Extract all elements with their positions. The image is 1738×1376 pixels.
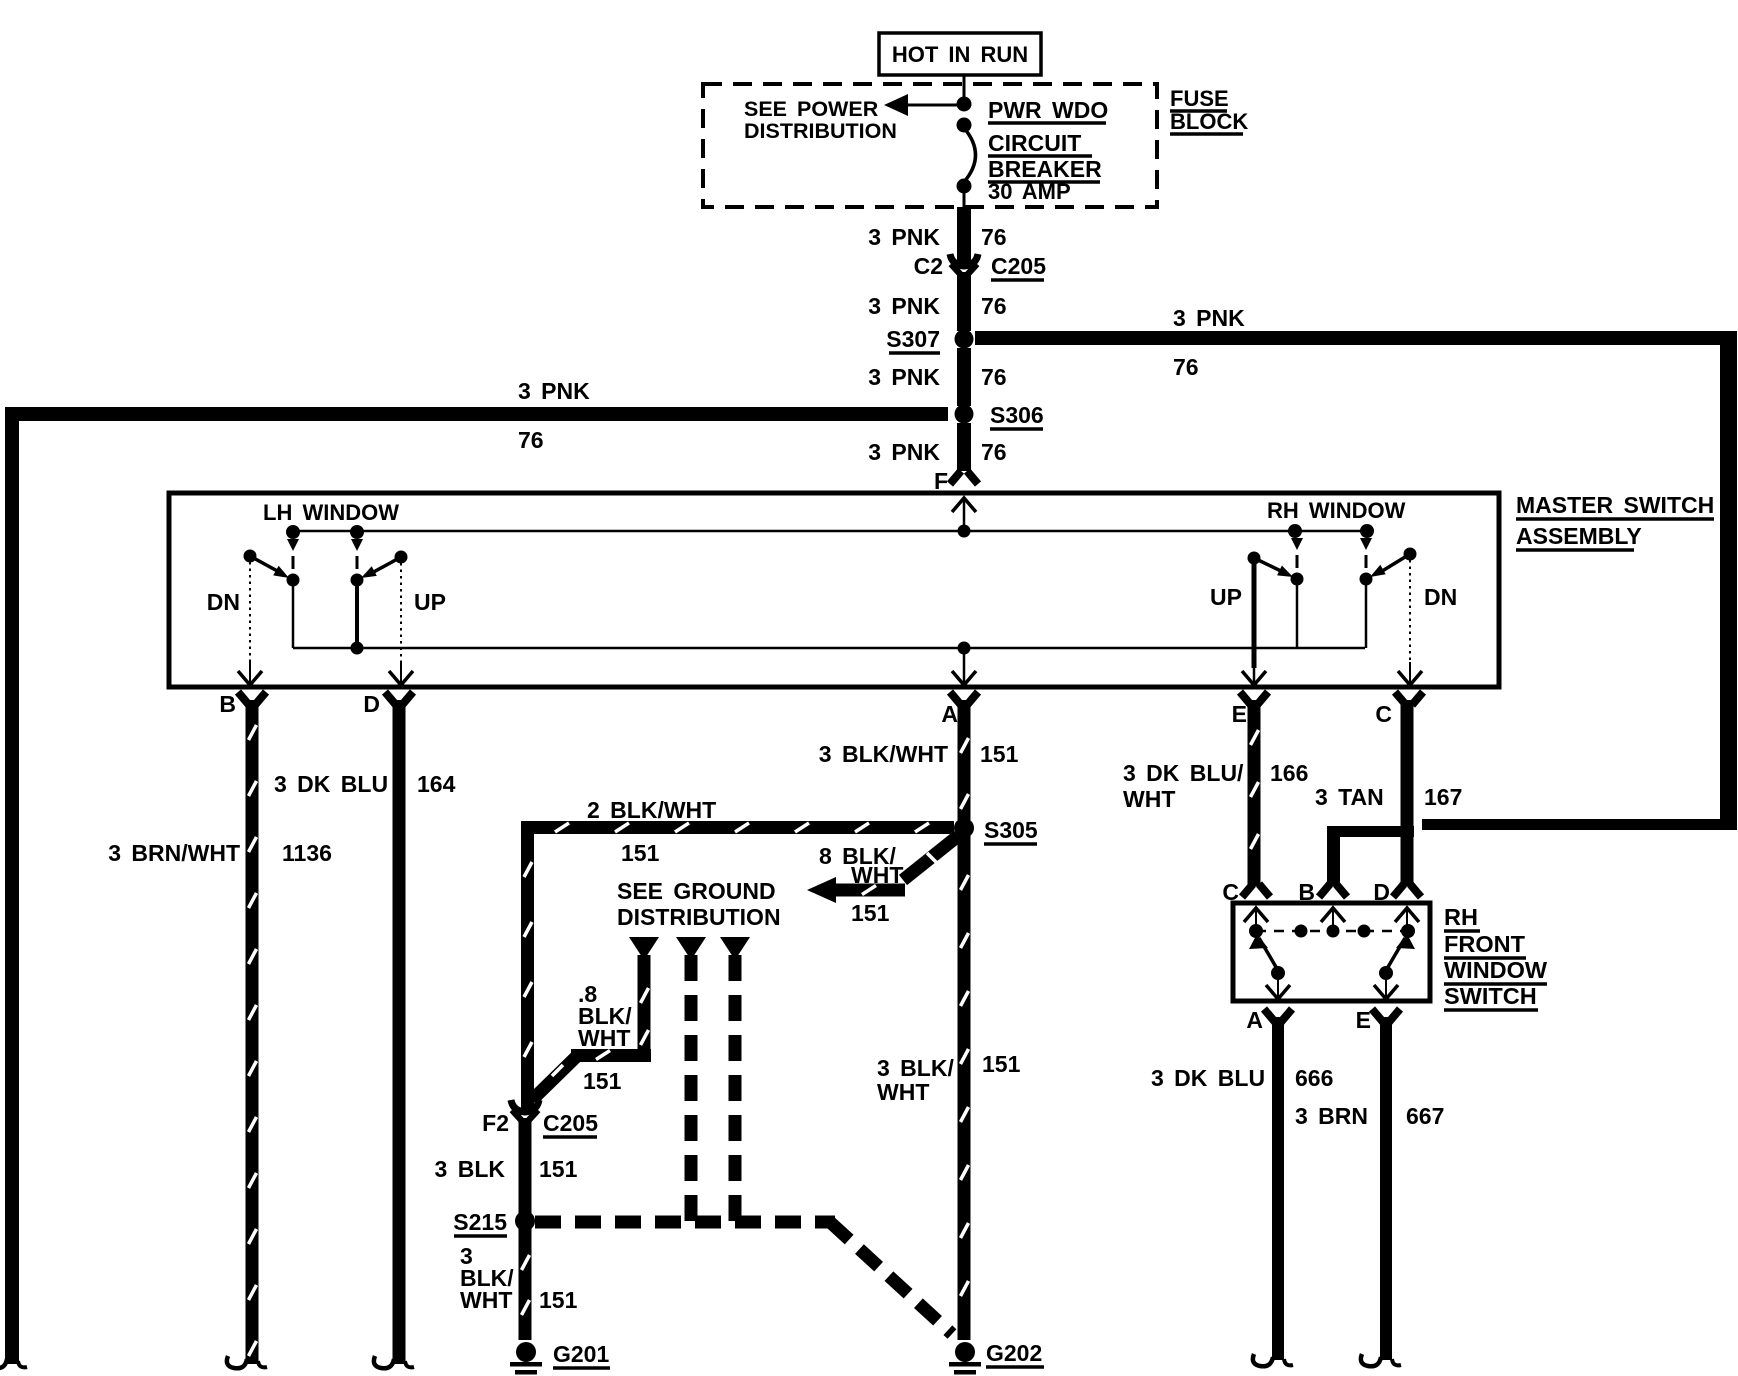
master switch assembly box (169, 493, 1499, 687)
svg-text:151: 151 (539, 1287, 578, 1313)
svg-text:3 BRN: 3 BRN (1295, 1103, 1368, 1129)
node: lower bus inside master switch (293, 647, 1365, 650)
svg-text:3 PNK: 3 PNK (1173, 305, 1245, 331)
svg-text:3 DK BLU: 3 DK BLU (1151, 1065, 1265, 1091)
svg-text:76: 76 (518, 427, 544, 453)
wire 3 BLK/WHT 151 (pin A to S305) (958, 700, 971, 820)
svg-text:A: A (941, 701, 958, 727)
svg-text:ASSEMBLY: ASSEMBLY (1516, 523, 1642, 549)
wire 3 PNK 76 (S307 to right edge and down) (975, 331, 1737, 345)
wire 3 BRN 667 (RH switch E) (1380, 1017, 1392, 1360)
svg-text:A: A (1246, 1007, 1263, 1033)
svg-text:WHT: WHT (578, 1025, 630, 1051)
svg-text:3 PNK: 3 PNK (868, 439, 940, 465)
connector C2 / C205 (950, 254, 978, 266)
svg-text:151: 151 (621, 840, 660, 866)
wire 3 PNK 76 (S306 to left edge and down) (5, 407, 948, 421)
svg-text:S307: S307 (886, 326, 940, 352)
svg-text:3 BLK/WHT: 3 BLK/WHT (819, 741, 948, 767)
svg-text:DISTRIBUTION: DISTRIBUTION (617, 904, 781, 930)
svg-text:3 TAN: 3 TAN (1315, 784, 1384, 810)
svg-text:151: 151 (980, 741, 1019, 767)
svg-text:3 DK BLU/: 3 DK BLU/ (1123, 760, 1244, 786)
wire 3 TAN 167 (master C to RH switch D) (1401, 700, 1414, 886)
wire 3 PNK (right edge down to RH switch B) (1422, 819, 1737, 830)
svg-text:RH WINDOW: RH WINDOW (1267, 498, 1406, 523)
wire 3 PNK 76 (S306 to master switch pin F) (957, 423, 971, 471)
pin A junction on lower bus (958, 642, 971, 655)
svg-text:3 BLK: 3 BLK (435, 1156, 506, 1182)
svg-text:S305: S305 (984, 817, 1038, 843)
svg-text:MASTER SWITCH: MASTER SWITCH (1516, 492, 1714, 518)
splice S305 (954, 818, 974, 838)
wire 3 BLK 151 (F2 to S215) (519, 1118, 532, 1214)
wire 2 BLK/WHT vertical down to F2 (521, 821, 534, 1110)
RH switch left blade (C to A) (1259, 938, 1276, 967)
svg-text:167: 167 (1424, 784, 1462, 810)
svg-text:C205: C205 (991, 253, 1046, 279)
svg-text:S215: S215 (453, 1209, 507, 1235)
LH window DN switch (286, 525, 300, 539)
wire 3 PNK 76 (fuse block to C205) (957, 207, 971, 264)
svg-text:SWITCH: SWITCH (1444, 983, 1537, 1009)
svg-text:151: 151 (982, 1051, 1021, 1077)
svg-text:76: 76 (981, 224, 1007, 250)
svg-text:S306: S306 (990, 402, 1044, 428)
svg-text:B: B (1298, 879, 1315, 905)
ground distribution arrow 1 (.8 BLK/WHT 151) (629, 937, 659, 960)
svg-text:E: E (1232, 701, 1247, 727)
svg-text:E: E (1356, 1007, 1371, 1033)
svg-text:76: 76 (981, 364, 1007, 390)
svg-text:D: D (1373, 879, 1390, 905)
svg-text:WHT: WHT (1123, 786, 1175, 812)
svg-text:3 PNK: 3 PNK (518, 378, 590, 404)
RH window UP switch (1288, 524, 1302, 538)
svg-text:WHT: WHT (460, 1287, 512, 1313)
svg-text:3 DK BLU: 3 DK BLU (274, 771, 388, 797)
svg-text:C2: C2 (914, 253, 943, 279)
node: upper bus (power) inside master switch (293, 530, 1367, 533)
svg-text:D: D (363, 691, 380, 717)
svg-text:667: 667 (1406, 1103, 1444, 1129)
dashed ground bus from S215 to G202 (535, 1216, 835, 1229)
svg-text:166: 166 (1270, 760, 1308, 786)
svg-text:C: C (1375, 701, 1392, 727)
svg-text:151: 151 (583, 1068, 622, 1094)
wire to power distribution (left arrow) (905, 104, 964, 107)
pin entry arrows inside RH switch (1255, 910, 1257, 931)
svg-text:CIRCUIT: CIRCUIT (988, 130, 1081, 156)
wire 3 BRN/WHT 1136 (pin B) (246, 700, 259, 1364)
wire 3 DK BLU 666 (RH switch A) (1272, 1017, 1284, 1360)
wire 3 BLK/WHT 151 (S305 down to G202) (958, 836, 971, 1340)
dashed contact bus inside RH switch (1256, 930, 1408, 933)
wire 8 BLK/WHT 151 with arrow (to ground distribution) (903, 836, 958, 880)
RH window DN switch (1360, 524, 1374, 538)
wire 3 DK BLU/WHT 166 (master E to RH switch C) (1248, 700, 1261, 886)
svg-text:3 PNK: 3 PNK (868, 224, 940, 250)
svg-text:F2: F2 (482, 1110, 509, 1136)
svg-text:UP: UP (1210, 584, 1242, 610)
svg-text:FRONT: FRONT (1444, 931, 1526, 957)
svg-text:DN: DN (207, 589, 240, 615)
ground distribution arrow 2 (dashed) (676, 937, 706, 960)
svg-text:2 BLK/WHT: 2 BLK/WHT (587, 797, 716, 823)
wire 3 PNK 76 (C205 to S307) (957, 272, 971, 331)
svg-text:SEE GROUND: SEE GROUND (617, 878, 776, 904)
svg-text:C: C (1222, 879, 1239, 905)
svg-text:C205: C205 (543, 1110, 598, 1136)
svg-text:WHT: WHT (851, 862, 903, 888)
svg-text:WINDOW: WINDOW (1444, 957, 1548, 983)
svg-text:DN: DN (1424, 584, 1457, 610)
svg-text:SEE POWER: SEE POWER (744, 97, 879, 121)
svg-text:PWR WDO: PWR WDO (988, 97, 1108, 123)
wire 2 BLK/WHT 151 (S305 left run) (521, 821, 954, 834)
svg-text:UP: UP (414, 589, 446, 615)
svg-text:BLOCK: BLOCK (1170, 109, 1248, 134)
svg-text:FUSE: FUSE (1170, 86, 1229, 111)
svg-text:76: 76 (981, 293, 1007, 319)
svg-text:HOT IN RUN: HOT IN RUN (892, 42, 1028, 67)
wire 3 BLK/WHT 151 (S215 to G201) (519, 1228, 532, 1340)
svg-text:G201: G201 (553, 1341, 609, 1367)
circuit breaker symbol (963, 75, 966, 100)
svg-text:30 AMP: 30 AMP (988, 179, 1071, 204)
hook at bottom of left 3 PNK wire (0, 1356, 7, 1368)
node HOT IN RUN box (879, 33, 1041, 75)
LH window UP switch (350, 525, 364, 539)
svg-text:3 BLK/: 3 BLK/ (877, 1055, 954, 1081)
svg-text:76: 76 (981, 439, 1007, 465)
ground distribution arrow 3 (dashed) (720, 937, 750, 960)
svg-text:3 PNK: 3 PNK (868, 364, 940, 390)
svg-text:666: 666 (1295, 1065, 1333, 1091)
wire 3 PNK 76 (S307 to S306) (957, 348, 971, 406)
svg-text:LH WINDOW: LH WINDOW (263, 500, 399, 525)
svg-text:DISTRIBUTION: DISTRIBUTION (744, 119, 897, 143)
svg-text:B: B (219, 691, 236, 717)
hook at bottom of BRN/WHT wire (227, 1356, 247, 1368)
svg-text:WHT: WHT (877, 1079, 929, 1105)
splice S306 (955, 405, 974, 424)
pin F entry arrow inside box (963, 500, 966, 531)
fuse block dashed outline (703, 84, 1157, 207)
ground G201 (516, 1342, 536, 1362)
ground G202 (955, 1342, 975, 1362)
splice S307 (955, 330, 974, 349)
svg-text:151: 151 (539, 1156, 578, 1182)
svg-text:RH: RH (1444, 904, 1478, 930)
svg-text:151: 151 (851, 900, 890, 926)
RH front window switch box (1233, 903, 1430, 1001)
splice S215 (515, 1211, 535, 1231)
svg-text:1136: 1136 (282, 840, 332, 866)
wire 3 DK BLU 164 (pin D) (393, 700, 406, 1364)
svg-text:3 PNK: 3 PNK (868, 293, 940, 319)
svg-text:76: 76 (1173, 354, 1199, 380)
svg-text:G202: G202 (986, 1340, 1042, 1366)
svg-text:164: 164 (417, 771, 456, 797)
svg-text:F: F (934, 468, 948, 494)
connector F2 / C205 (511, 1100, 539, 1112)
RH switch right blade (D to E) (1388, 938, 1405, 967)
svg-text:3 BRN/WHT: 3 BRN/WHT (108, 840, 240, 866)
